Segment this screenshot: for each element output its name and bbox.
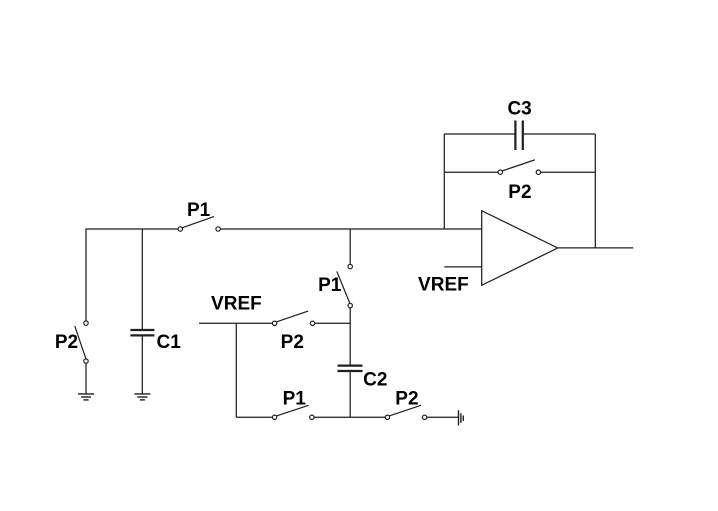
svg-text:P1: P1 — [283, 389, 307, 410]
switch P2 (left branch to ground) — [75, 321, 88, 363]
wire: middle P2 to C2 branch — [315, 322, 351, 324]
svg-text:P1: P1 — [318, 275, 342, 296]
ground (bottom right, sideways) — [459, 410, 464, 425]
svg-text:C3: C3 — [507, 99, 531, 120]
wire: top rail from P1 to op-amp inverting input — [220, 228, 481, 230]
wire: feedback middle left segment — [444, 171, 498, 173]
switch P1 (bottom, VREF side) — [272, 405, 314, 419]
wire: feedback middle right segment — [541, 171, 596, 173]
switch P1 (C2 branch, vertical) — [337, 264, 352, 307]
wire: C2 bottom plate to bottom line — [349, 372, 351, 417]
svg-text:VREF: VREF — [418, 275, 469, 296]
capacitor C2 — [338, 366, 363, 371]
wire: left P2 switch to ground — [85, 363, 87, 393]
ground (left branch) — [78, 394, 94, 400]
wire: C1 branch bottom to ground — [141, 337, 143, 394]
svg-text:P2: P2 — [55, 332, 78, 353]
ground (C1 branch) — [134, 394, 150, 400]
wire: feedback left vertical (inverting input node up to C3 loop) — [443, 134, 445, 229]
wire: C2 branch from switch to capacitor — [349, 308, 351, 365]
svg-text:C2: C2 — [363, 369, 387, 390]
wire: VREF stub to op-amp non-inverting input — [444, 266, 481, 268]
op-amp U1 — [482, 211, 558, 286]
wire: bottom line from VREF branch corner to switch P1 — [236, 416, 272, 418]
svg-text:P2: P2 — [508, 182, 531, 203]
svg-text:P1: P1 — [187, 200, 211, 221]
wire: bottom P2 to ground — [427, 416, 458, 418]
svg-text:VREF: VREF — [211, 293, 262, 314]
wire: feedback top right segment — [523, 133, 595, 135]
wire: C1 branch top — [141, 229, 143, 329]
capacitor C3 — [515, 121, 522, 151]
wire: bottom line between P1 and P2 through C2 junction — [314, 416, 385, 418]
svg-text:P2: P2 — [281, 332, 304, 353]
wire: op-amp output — [558, 247, 634, 249]
capacitor C1 — [130, 330, 154, 335]
switch P2 (bottom, to ground) — [385, 405, 427, 419]
switch P2 (feedback reset) — [498, 160, 541, 174]
wire: VREF line to switch P2 (middle) — [199, 322, 272, 324]
wire: feedback right vertical down to output — [594, 134, 596, 248]
switch P1 (input sampling, top rail) — [178, 217, 220, 232]
wire: top-left rail (left vertical + horizontal to switch P1) — [86, 229, 178, 321]
switch P2 (middle, VREF to C2 top) — [272, 311, 314, 325]
wire: VREF branch vertical down to bottom line — [235, 323, 237, 417]
wire: feedback top left segment — [444, 133, 515, 135]
svg-text:C1: C1 — [157, 332, 182, 353]
wire: C2 branch from top rail down to switch P1 — [349, 229, 351, 264]
svg-text:P2: P2 — [395, 389, 418, 410]
